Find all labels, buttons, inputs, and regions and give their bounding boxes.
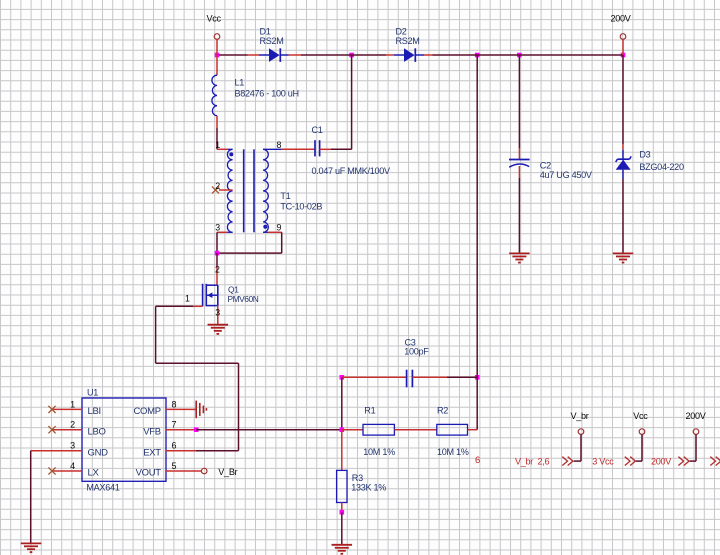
svg-text:LX: LX xyxy=(88,468,100,479)
svg-text:7: 7 xyxy=(171,420,176,430)
svg-text:2: 2 xyxy=(70,420,75,430)
svg-text:9: 9 xyxy=(277,223,282,233)
svg-text:6: 6 xyxy=(475,455,480,466)
svg-text:V_Br: V_Br xyxy=(218,467,237,477)
svg-text:L1: L1 xyxy=(235,77,245,87)
svg-text:R2: R2 xyxy=(437,405,448,415)
svg-text:B82476 - 100 uH: B82476 - 100 uH xyxy=(235,88,299,98)
svg-text:D1: D1 xyxy=(260,26,271,36)
svg-text:100pF: 100pF xyxy=(404,347,429,357)
svg-text:PMV60N: PMV60N xyxy=(228,294,259,304)
svg-text:VFB: VFB xyxy=(143,426,161,437)
svg-text:3: 3 xyxy=(215,307,220,317)
svg-text:C2: C2 xyxy=(540,160,551,170)
svg-text:200V: 200V xyxy=(686,411,707,421)
svg-text:6: 6 xyxy=(171,441,176,451)
svg-text:10M 1%: 10M 1% xyxy=(437,447,469,457)
svg-text:RS2M: RS2M xyxy=(260,36,284,46)
svg-text:V_br 2,6: V_br 2,6 xyxy=(515,456,549,466)
svg-text:133K 1%: 133K 1% xyxy=(351,482,386,492)
svg-text:1: 1 xyxy=(215,140,220,150)
svg-text:3: 3 xyxy=(215,223,220,233)
svg-text:VOUT: VOUT xyxy=(136,468,162,479)
svg-text:C1: C1 xyxy=(312,125,323,135)
svg-text:1: 1 xyxy=(70,399,75,409)
svg-text:200V: 200V xyxy=(611,14,632,24)
svg-text:T1: T1 xyxy=(280,191,290,201)
svg-text:LBO: LBO xyxy=(88,426,106,437)
svg-text:2: 2 xyxy=(215,264,220,274)
svg-text:GND: GND xyxy=(88,447,109,458)
svg-text:V_br: V_br xyxy=(571,411,589,421)
svg-text:TC-10-02B: TC-10-02B xyxy=(280,202,322,212)
svg-text:D2: D2 xyxy=(396,26,407,36)
svg-text:8: 8 xyxy=(277,140,282,150)
svg-text:3 Vcc: 3 Vcc xyxy=(592,456,614,466)
svg-text:LBI: LBI xyxy=(88,406,101,417)
svg-text:8: 8 xyxy=(171,399,176,409)
svg-text:BZG04-220: BZG04-220 xyxy=(639,162,684,172)
svg-text:D3: D3 xyxy=(639,149,650,159)
svg-text:U1: U1 xyxy=(87,387,98,397)
svg-text:3: 3 xyxy=(70,441,75,451)
svg-text:RS2M: RS2M xyxy=(396,36,420,46)
svg-text:Vcc: Vcc xyxy=(633,411,648,421)
svg-text:R1: R1 xyxy=(364,405,375,415)
svg-text:10M 1%: 10M 1% xyxy=(363,447,395,457)
svg-text:1: 1 xyxy=(185,293,190,303)
svg-text:0.047 uF MMK/100V: 0.047 uF MMK/100V xyxy=(312,166,392,176)
svg-text:MAX641: MAX641 xyxy=(86,483,119,493)
svg-text:EXT: EXT xyxy=(143,447,161,458)
svg-text:5: 5 xyxy=(171,461,176,471)
svg-text:200V: 200V xyxy=(651,456,672,466)
svg-text:2: 2 xyxy=(215,181,220,191)
svg-text:R3: R3 xyxy=(352,473,363,483)
svg-text:4u7 UG 450V: 4u7 UG 450V xyxy=(540,170,593,180)
svg-text:Q1: Q1 xyxy=(228,284,239,294)
svg-text:4: 4 xyxy=(70,461,75,471)
svg-text:COMP: COMP xyxy=(133,406,160,417)
svg-text:Vcc: Vcc xyxy=(207,14,222,24)
